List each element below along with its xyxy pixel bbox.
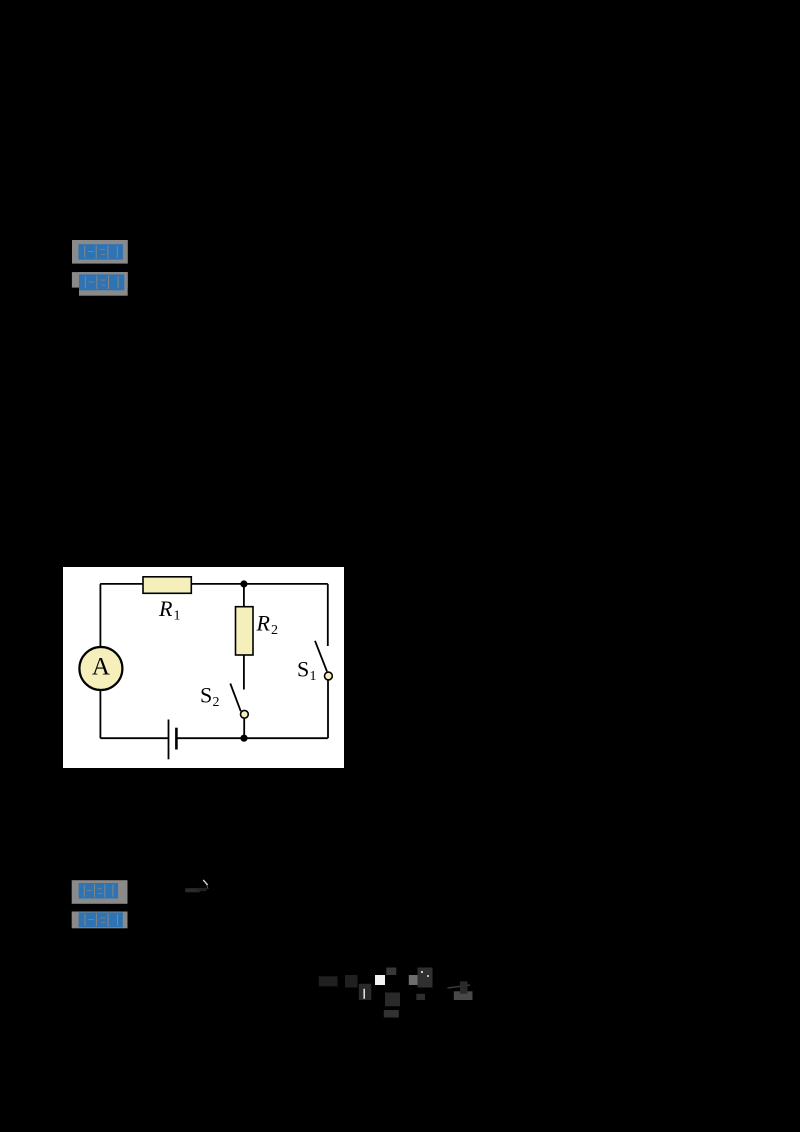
node junction bottom xyxy=(240,735,247,742)
wire left upper xyxy=(99,584,101,648)
circuit figure panel xyxy=(63,567,344,768)
switch S2 contact xyxy=(241,710,249,718)
resistor R2 xyxy=(236,607,254,655)
switch S2 lever xyxy=(230,684,241,712)
svg-text:2: 2 xyxy=(271,623,278,638)
wire left lower xyxy=(99,689,101,738)
svg-text:S: S xyxy=(297,657,309,682)
wire right upper xyxy=(327,584,329,646)
resistor R1 xyxy=(143,577,191,594)
svg-text:1: 1 xyxy=(174,609,181,624)
wire bottom left xyxy=(100,737,168,739)
svg-text:2: 2 xyxy=(213,695,220,710)
wire branch upper xyxy=(243,584,245,607)
battery long plate xyxy=(168,720,170,760)
node answer-chip-1 xyxy=(71,239,129,265)
switch S1 contact xyxy=(325,672,333,680)
svg-text:R: R xyxy=(158,596,173,621)
ammeter A xyxy=(79,647,122,690)
node junction top xyxy=(240,580,247,587)
wire right lower xyxy=(327,680,329,738)
svg-text:A: A xyxy=(92,654,110,681)
svg-text:S: S xyxy=(200,683,212,708)
node answer-chip-3 xyxy=(71,879,129,905)
white background of figure xyxy=(63,567,344,768)
wire S2 to junction xyxy=(243,718,245,738)
svg-text:R: R xyxy=(256,611,271,636)
switch S1 lever xyxy=(315,641,327,672)
faint equation fragment A xyxy=(183,876,213,896)
battery short plate xyxy=(175,728,178,750)
node answer-chip-2 xyxy=(71,271,129,297)
wire branch lower xyxy=(243,655,245,690)
wire top xyxy=(100,583,328,585)
wire bottom right xyxy=(177,737,328,739)
svg-text:1: 1 xyxy=(310,669,317,684)
node answer-chip-4 xyxy=(71,910,129,930)
faint equation fragment B xyxy=(315,963,480,1021)
